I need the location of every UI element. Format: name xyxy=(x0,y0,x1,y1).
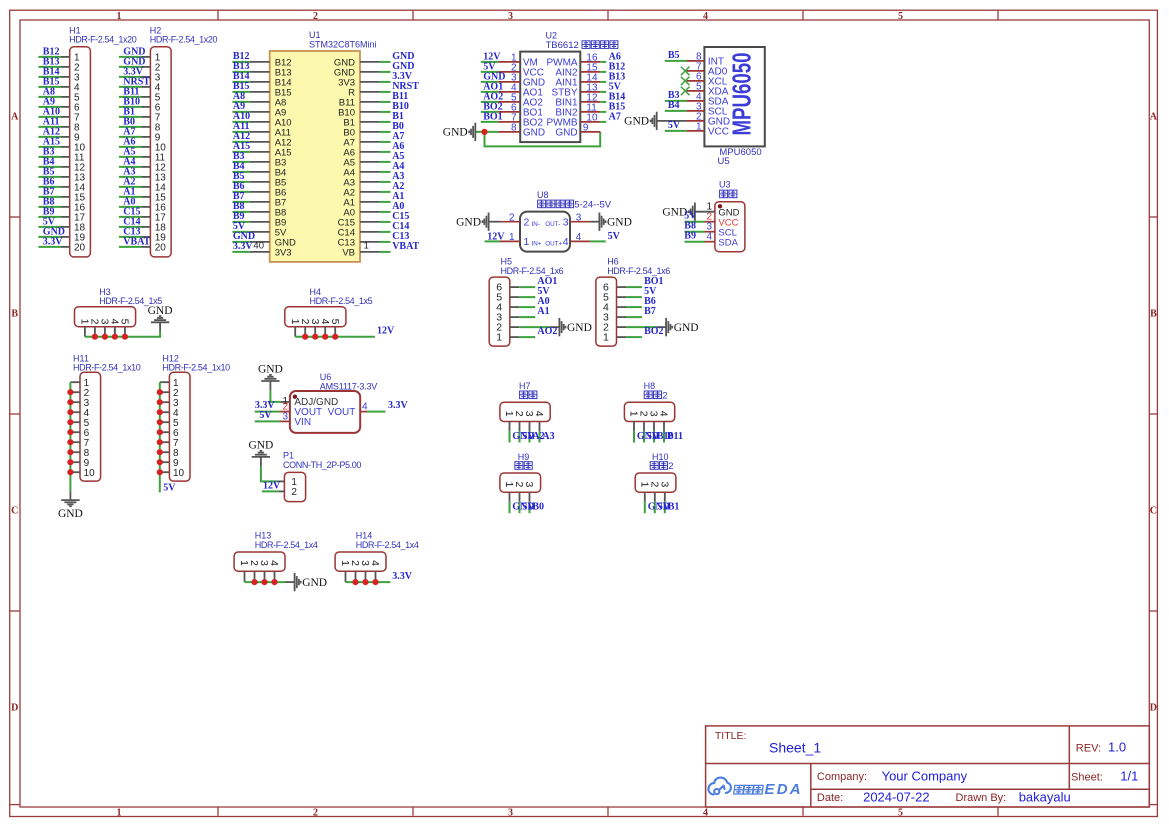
svg-text:GND: GND xyxy=(674,322,699,334)
U8 inside pin labels xyxy=(524,217,569,249)
connector H3 pin stubs xyxy=(85,327,125,337)
svg-text:5: 5 xyxy=(898,11,903,22)
svg-text:5V: 5V xyxy=(668,120,681,131)
svg-text:H9: H9 xyxy=(518,452,530,462)
svg-text:3.3V: 3.3V xyxy=(392,571,413,582)
svg-text:Date:: Date: xyxy=(817,792,843,804)
svg-text:1: 1 xyxy=(117,807,122,818)
connector H9 pin wires xyxy=(510,492,530,513)
U3 pin1 marker dot xyxy=(718,204,722,208)
connector H10 net labels xyxy=(648,502,680,513)
H3 ground bus wire xyxy=(85,331,160,337)
svg-text:10: 10 xyxy=(173,468,185,479)
svg-text:GND: GND xyxy=(148,305,173,317)
U8 pin2 lead xyxy=(489,221,500,223)
svg-text:2024-07-22: 2024-07-22 xyxy=(863,789,930,804)
H13 ground bus wire xyxy=(245,581,286,583)
svg-text:5V: 5V xyxy=(259,410,272,421)
connector H6 xyxy=(607,257,670,276)
svg-text:REV:: REV: xyxy=(1076,743,1101,755)
svg-text:GND: GND xyxy=(302,577,327,589)
svg-text:OUT+: OUT+ xyxy=(545,241,562,248)
svg-text:C: C xyxy=(1150,505,1157,516)
svg-text:2: 2 xyxy=(291,487,297,498)
U3 body xyxy=(715,202,745,252)
connector H5 pin wires xyxy=(510,287,559,337)
connector H1 pin wires xyxy=(38,57,69,247)
connector H6 body xyxy=(596,277,617,346)
svg-text:EDA: EDA xyxy=(765,781,803,798)
connector H7 pin numbers xyxy=(503,411,545,417)
svg-text:Company:: Company: xyxy=(817,771,867,783)
connector H3 xyxy=(99,287,162,306)
svg-text:HDR-F-2.54_1x6: HDR-F-2.54_1x6 xyxy=(607,266,670,276)
svg-text:U3: U3 xyxy=(719,180,731,190)
svg-text:1: 1 xyxy=(496,332,502,344)
svg-text:P1: P1 xyxy=(283,451,294,461)
svg-text:3V3: 3V3 xyxy=(275,247,292,258)
connector H12 body xyxy=(169,372,190,481)
svg-text:12V: 12V xyxy=(377,326,395,337)
svg-text:HDR-F-2.54_1x5: HDR-F-2.54_1x5 xyxy=(310,296,373,306)
svg-text:U8: U8 xyxy=(537,190,549,200)
U3 pin names xyxy=(718,207,739,248)
connector H2 pin wires xyxy=(119,57,150,247)
U1 pin names xyxy=(275,57,355,258)
svg-text:IN-: IN- xyxy=(532,221,540,228)
svg-text:A: A xyxy=(1150,111,1158,122)
U8 part name xyxy=(538,200,612,211)
U6 pin names xyxy=(294,397,355,428)
U8 pin3 lead xyxy=(570,221,590,223)
svg-text:U6: U6 xyxy=(320,372,332,382)
svg-text:A: A xyxy=(11,111,19,122)
U8 pin numbers xyxy=(509,213,582,244)
H3 ground flag xyxy=(151,316,169,322)
svg-text:3.3V: 3.3V xyxy=(388,400,409,411)
U3 pin1 GND wire xyxy=(695,211,715,213)
no-connect X pin5 xyxy=(681,87,690,96)
P1 pin2 wire 12V xyxy=(262,490,279,492)
P1 body xyxy=(284,472,305,501)
svg-text:BO2: BO2 xyxy=(644,326,663,337)
imu module U5 MPU6050 xyxy=(704,47,764,146)
svg-text:VB: VB xyxy=(342,247,355,258)
U5 ground flag xyxy=(651,112,657,130)
svg-text:B: B xyxy=(1150,308,1157,319)
svg-text:HDR-F-2.54_1x20: HDR-F-2.54_1x20 xyxy=(69,35,137,45)
H14 3.3V bus wire xyxy=(346,581,391,583)
connector H5 net labels xyxy=(537,276,557,337)
svg-text:MPU6050: MPU6050 xyxy=(727,53,757,136)
U6 pin3 wire 5V xyxy=(255,420,280,422)
svg-text:10: 10 xyxy=(84,468,96,479)
connector H9 name xyxy=(515,462,532,470)
U5 ref labels xyxy=(718,147,762,167)
connector H13 pin stubs xyxy=(245,571,275,582)
svg-text:Your Company: Your Company xyxy=(882,768,968,783)
svg-text:5V: 5V xyxy=(163,482,176,493)
U3 pin4 wire B9 xyxy=(685,241,705,243)
driver U2 TB6612 xyxy=(546,31,558,41)
svg-text:1: 1 xyxy=(524,236,530,248)
U2 right pin wires xyxy=(580,62,606,122)
U2 left pin wires xyxy=(481,62,520,122)
connector H7 body xyxy=(500,402,550,421)
connector H11 body xyxy=(80,372,101,481)
svg-text:40: 40 xyxy=(253,241,264,252)
svg-text:HDR-F-2.54_1x4: HDR-F-2.54_1x4 xyxy=(356,540,419,550)
svg-text:TB6612: TB6612 xyxy=(546,40,582,51)
H12 5V bus wire xyxy=(159,382,161,492)
U2 pin numbers xyxy=(511,53,598,134)
H11 ground flag xyxy=(61,500,79,506)
connector H2 xyxy=(150,26,218,45)
svg-text:1: 1 xyxy=(603,332,609,344)
U6 pin2 wire 3.3V xyxy=(255,411,280,413)
U5 wire pin8 B5 xyxy=(665,60,687,62)
U2 part name TB6612 xyxy=(546,40,618,51)
connector H10 pin wires xyxy=(645,492,665,513)
U1 body xyxy=(270,51,360,262)
regulator U6 AMS1117-3.3V xyxy=(320,372,377,392)
U2 ground flag xyxy=(469,123,475,141)
U2 body xyxy=(520,52,580,143)
U5 wire pin3 B4 xyxy=(665,110,687,112)
svg-text:4: 4 xyxy=(703,807,708,818)
svg-text:OUT-: OUT- xyxy=(545,221,560,228)
H3 junctions xyxy=(92,334,128,340)
title block texts xyxy=(715,730,1138,804)
svg-text:3: 3 xyxy=(282,411,288,422)
svg-text:Sheet_1: Sheet_1 xyxy=(769,740,821,756)
U3 ground flag xyxy=(689,203,695,221)
U1 right net labels xyxy=(392,51,419,252)
svg-text:1.0: 1.0 xyxy=(1108,740,1126,755)
svg-text:TITLE:: TITLE: xyxy=(715,730,747,742)
svg-text:4: 4 xyxy=(563,236,569,248)
svg-text:1: 1 xyxy=(364,241,369,252)
H12 junctions xyxy=(157,389,163,475)
H4 12V bus wire xyxy=(295,336,375,338)
U1 right pin wires xyxy=(360,62,391,252)
svg-text:VOUT: VOUT xyxy=(328,407,356,418)
U2 pin9 wire xyxy=(580,131,600,133)
connector H7 xyxy=(519,381,531,391)
EDA logo xyxy=(708,778,730,795)
U5 wire pin1 5V xyxy=(665,130,687,132)
connector H11 pin stubs xyxy=(70,382,80,472)
svg-text:3: 3 xyxy=(508,11,513,22)
connector H9 net labels xyxy=(512,502,544,513)
svg-text:B5: B5 xyxy=(668,50,680,61)
U6 pin1 GND wire xyxy=(269,381,271,391)
no-connect X pin7 xyxy=(681,67,690,76)
svg-text:5: 5 xyxy=(119,319,131,325)
svg-text:GND: GND xyxy=(523,128,545,139)
connector H3 body xyxy=(75,307,136,327)
svg-text:4: 4 xyxy=(268,560,280,566)
H11 junctions xyxy=(67,389,73,475)
svg-text:STM32C8T6Mini: STM32C8T6Mini xyxy=(309,40,377,50)
U3 pin3 wire B8 xyxy=(685,231,705,233)
P1 pin numbers xyxy=(291,477,297,498)
connector H3 pin numbers xyxy=(79,319,131,325)
connector H8 xyxy=(644,381,656,391)
svg-text:U2: U2 xyxy=(546,31,558,41)
connector H13 xyxy=(255,531,318,550)
U6 body xyxy=(290,391,360,433)
P1 pin1 GND wire xyxy=(260,457,262,467)
svg-text:H8: H8 xyxy=(644,381,656,391)
svg-text:3: 3 xyxy=(523,481,535,487)
logo text xyxy=(734,781,803,798)
svg-text:GND: GND xyxy=(567,322,592,334)
U8 pin1 wire 12V xyxy=(485,240,500,242)
svg-text:A3: A3 xyxy=(542,431,554,442)
svg-text:GND: GND xyxy=(624,116,649,128)
connector H5 pin numbers xyxy=(496,282,502,344)
connector H1 net labels xyxy=(43,47,65,248)
connector H8 net labels xyxy=(637,431,683,442)
connector H1 xyxy=(69,26,137,45)
connector H10 pin numbers xyxy=(638,481,670,487)
svg-text:3: 3 xyxy=(508,807,513,818)
title block xyxy=(706,726,1150,807)
svg-text:4: 4 xyxy=(369,560,381,566)
P1 ground flag xyxy=(252,451,270,457)
svg-text:2: 2 xyxy=(524,217,530,229)
connector H8 name xyxy=(644,390,667,401)
svg-text:H10: H10 xyxy=(652,452,669,462)
buck module U8 xyxy=(537,190,549,200)
connector H1 body xyxy=(70,47,91,257)
U1 left net labels xyxy=(233,51,255,252)
svg-text:GND: GND xyxy=(58,508,83,520)
svg-text:B1: B1 xyxy=(668,502,680,513)
svg-text:VBAT: VBAT xyxy=(392,241,419,252)
svg-text:CONN-TH_2P-P5.00: CONN-TH_2P-P5.00 xyxy=(283,460,361,470)
connector P1 CONN-TH_2P xyxy=(283,451,361,471)
svg-text:GND: GND xyxy=(443,127,468,139)
svg-text:B11: B11 xyxy=(667,431,683,442)
connector H2 net labels xyxy=(123,47,150,248)
svg-text:3.3V: 3.3V xyxy=(233,241,254,252)
svg-text:VBAT: VBAT xyxy=(123,237,150,248)
connector H6 pin numbers xyxy=(603,282,609,344)
connector H10 body xyxy=(635,473,676,492)
junction at U2 pin8 xyxy=(481,129,487,135)
svg-text:B0: B0 xyxy=(532,502,544,513)
U2 left net labels xyxy=(483,51,505,122)
connector H5 ground flag xyxy=(559,318,565,336)
U8 left ground flag xyxy=(483,213,489,231)
connector H12 pin stubs xyxy=(160,382,170,472)
svg-text:A7: A7 xyxy=(609,111,621,122)
U3 part name xyxy=(720,190,737,198)
display U3 xyxy=(719,180,731,190)
H13 ground flag xyxy=(295,573,301,591)
no-connect X pin6 xyxy=(681,77,690,86)
svg-text:B7: B7 xyxy=(644,306,656,317)
svg-text:GND: GND xyxy=(607,217,632,229)
svg-text:12V: 12V xyxy=(263,480,281,491)
U2 pin8 GND wire xyxy=(475,131,498,133)
connector H10 name xyxy=(650,461,673,472)
svg-text:1/1: 1/1 xyxy=(1120,769,1138,784)
connector H4 pin numbers xyxy=(289,319,341,325)
connector H6 ground flag xyxy=(666,318,672,336)
connector H12 pin numbers xyxy=(173,378,185,479)
connector H8 pin numbers xyxy=(628,411,670,417)
connector H6 pin wires xyxy=(617,287,666,337)
connector H12 xyxy=(162,353,230,372)
svg-text:GND: GND xyxy=(258,364,283,376)
U1 left pin wires xyxy=(232,62,269,252)
svg-text:AMS1117-3.3V: AMS1117-3.3V xyxy=(320,381,377,391)
connector H7 name xyxy=(520,391,537,399)
U8 body xyxy=(520,212,570,252)
mcu module U1 STM32C8T6Mini xyxy=(309,30,377,50)
U6 pin4 wire 3.3V out xyxy=(360,411,367,413)
svg-text:20: 20 xyxy=(155,243,167,254)
U5 pin numbers xyxy=(696,52,702,133)
connector H11 pin numbers xyxy=(84,378,96,479)
connector H14 pin numbers xyxy=(339,560,381,566)
svg-text:A1: A1 xyxy=(537,306,549,317)
svg-text:HDR-F-2.54_1x20: HDR-F-2.54_1x20 xyxy=(150,35,218,45)
svg-text:4: 4 xyxy=(706,231,712,242)
svg-text:B9: B9 xyxy=(684,231,696,242)
connector H8 body xyxy=(624,402,674,421)
svg-text:U1: U1 xyxy=(309,30,321,40)
svg-text:4: 4 xyxy=(658,411,670,417)
svg-text:SDA: SDA xyxy=(718,237,738,248)
connector H5 xyxy=(501,257,564,276)
connector H13 pin numbers xyxy=(238,560,280,566)
connector H1 pin numbers xyxy=(74,53,86,254)
svg-text:C: C xyxy=(11,505,18,516)
svg-text:U5: U5 xyxy=(718,156,730,167)
connector H7 pin wires xyxy=(510,422,540,443)
H13 junctions xyxy=(251,579,277,585)
svg-text:5: 5 xyxy=(329,319,341,325)
svg-text:Sheet:: Sheet: xyxy=(1071,772,1103,784)
svg-text:12V: 12V xyxy=(487,232,505,243)
svg-text:B4: B4 xyxy=(668,100,680,111)
connector H5 body xyxy=(489,277,510,346)
svg-text:5: 5 xyxy=(898,807,903,818)
svg-text:4: 4 xyxy=(703,11,708,22)
connector H7 net labels xyxy=(512,431,554,442)
svg-text:20: 20 xyxy=(74,243,86,254)
svg-text:2: 2 xyxy=(662,390,667,401)
connector H13 body xyxy=(234,552,285,571)
connector H9 body xyxy=(500,473,541,492)
U3 pin2 wire 5V xyxy=(685,221,705,223)
svg-text:IN+: IN+ xyxy=(532,241,542,248)
connector H4 body xyxy=(285,307,346,327)
svg-text:D: D xyxy=(11,702,18,713)
connector H2 pin numbers xyxy=(155,53,167,254)
svg-text:5-24--5V: 5-24--5V xyxy=(574,200,612,211)
svg-text:4: 4 xyxy=(362,401,368,412)
svg-text:AO2: AO2 xyxy=(537,326,557,337)
svg-text:VIN: VIN xyxy=(294,417,311,428)
U6 pin1 marker dot xyxy=(293,395,297,399)
U5 pin names xyxy=(708,57,730,138)
U2 pin8-pin9 wire loop xyxy=(485,132,601,147)
svg-text:2: 2 xyxy=(313,807,318,818)
svg-text:BO1: BO1 xyxy=(483,111,502,122)
svg-text:D: D xyxy=(1150,702,1157,713)
H11 ground bus wire xyxy=(69,382,71,491)
connector H9 xyxy=(518,452,530,462)
svg-text:4: 4 xyxy=(533,411,545,417)
connector H10 xyxy=(652,452,669,462)
connector H14 xyxy=(356,531,419,550)
U6 ground flag xyxy=(261,375,279,381)
U5 pin2 GND lead xyxy=(657,120,687,122)
connector H14 body xyxy=(335,552,386,571)
connector H9 pin numbers xyxy=(503,481,535,487)
svg-text:HDR-F-2.54_1x10: HDR-F-2.54_1x10 xyxy=(162,363,230,373)
U8 pin4 wire 5V xyxy=(570,240,590,242)
svg-text:H7: H7 xyxy=(519,381,531,391)
svg-text:GND: GND xyxy=(555,128,577,139)
U5 pin wires xyxy=(687,61,705,131)
svg-text:GND: GND xyxy=(456,217,481,229)
connector H8 pin wires xyxy=(634,422,664,443)
svg-text:2: 2 xyxy=(313,11,318,22)
svg-text:B: B xyxy=(11,308,18,319)
svg-text:2: 2 xyxy=(668,461,673,472)
U3 pin numbers xyxy=(706,201,712,242)
svg-text:HDR-F-2.54_1x4: HDR-F-2.54_1x4 xyxy=(255,540,318,550)
connector H4 xyxy=(310,287,373,306)
connector H4 pin stubs xyxy=(295,327,335,337)
H4 junctions xyxy=(302,334,338,340)
svg-text:1: 1 xyxy=(117,11,122,22)
svg-text:GND: GND xyxy=(248,440,273,452)
U8 right ground flag xyxy=(599,213,605,231)
connector H11 xyxy=(73,353,141,372)
svg-text:HDR-F-2.54_1x6: HDR-F-2.54_1x6 xyxy=(501,266,564,276)
svg-text:bakayalu: bakayalu xyxy=(1019,789,1071,804)
svg-text:HDR-F-2.54_1x10: HDR-F-2.54_1x10 xyxy=(73,363,141,373)
U5 wire pin4 B3 xyxy=(665,100,687,102)
connector H14 pin stubs xyxy=(346,571,376,582)
U2 right net labels xyxy=(609,51,626,122)
H14 junctions xyxy=(352,579,378,585)
svg-text:3: 3 xyxy=(658,481,670,487)
connector H2 body xyxy=(150,47,171,257)
svg-text:Drawn By:: Drawn By: xyxy=(956,792,1007,804)
connector H6 net labels xyxy=(644,276,663,337)
svg-text:3: 3 xyxy=(563,217,569,229)
U2 pin names xyxy=(523,58,578,139)
svg-text:5V: 5V xyxy=(608,231,621,242)
svg-text:3.3V: 3.3V xyxy=(43,237,64,248)
